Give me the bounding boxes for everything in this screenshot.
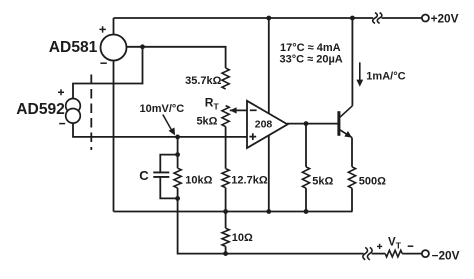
label VT minus mark [408,245,414,247]
wire capacitor bottom branch [160,178,177,199]
op-amp non-inverting input mark [249,133,256,140]
annotation 33C = 20uA [280,54,343,66]
dashed remote-sensor boundary line [90,75,92,151]
wire op-amp output to transistor base [287,123,338,125]
AD592 plus polarity mark [58,89,64,95]
annotation 10mV/degC with arrow [140,103,185,135]
potentiometer RT 5k (zigzag) [222,106,229,127]
value label 5k [312,176,333,188]
wire output node down to 5k resistor [305,124,307,167]
value label 10 ohm [232,232,253,244]
label VT [388,237,402,251]
svg-text:10Ω: 10Ω [232,232,253,244]
value label 12.7k [231,175,268,187]
junction dot node A (AD581 output) [140,44,145,49]
wire 12.7k bottom to bottom rail [225,188,227,212]
label +20V [431,11,459,25]
junction dot 12.7k / 10 ohm at bottom rail [223,209,228,214]
svg-text:5kΩ: 5kΩ [196,115,217,127]
op-amp U3 (triangle, 208) [247,101,288,148]
svg-text:12.7kΩ: 12.7kΩ [231,175,268,187]
label AD581 [49,39,98,56]
annotation current arrow 1mA/degC [356,62,363,86]
op-amp inverting input mark [250,109,257,111]
label 208 [255,118,273,130]
wire 5k bottom to bottom rail [305,188,307,211]
wire crossing column from top rail to bottom rail [268,18,270,212]
break mark on top rail [373,13,382,24]
wire 10k bottom down to lowest rail [177,188,179,198]
junction dot crossing column at top rail [266,16,271,21]
label VT plus mark [377,244,382,249]
svg-text:35.7kΩ: 35.7kΩ [185,75,222,87]
junction dot 5k bottom at bottom rail [304,209,309,214]
value label 10k [185,175,212,187]
wire +20V top rail (right segment after break) [382,17,422,19]
capacitor C (plates) [153,172,169,177]
junction dot node B (10mV/degC node) [175,135,180,140]
wire bottom rail (AD581 return) [114,211,353,213]
wire node A down-left to AD592 plus terminal [73,47,143,99]
wire RT wiper to op-amp inverting input [230,109,248,111]
wire transistor emitter to 500 ohm [351,138,353,167]
value label 500 ohm [359,176,386,188]
current source U2 AD592 (two-circle symbol) [66,99,81,124]
break mark on lowest rail [363,247,372,259]
resistor R1 35.7k [222,68,229,89]
AD581 plus polarity mark [99,26,105,32]
svg-text:10mV/°C: 10mV/°C [140,103,185,115]
transistor Q1 collector stroke [340,106,353,118]
transistor Q1 emitter stroke with arrow [340,130,352,138]
wire lowest rail right segment after break [372,253,386,255]
wire +20V top rail (left segment) [114,17,374,19]
junction dot crossing column at bottom rail [266,209,271,214]
wire AD581 output to node A [127,47,226,68]
terminal -20V (open circle) [422,250,429,257]
svg-text:V: V [388,237,396,249]
wire node C down crossing bottom rail to lowest rail [178,198,364,253]
svg-text:500Ω: 500Ω [359,176,386,188]
wire capacitor top branch [160,155,177,172]
potentiometer RT wiper arrow [230,107,237,113]
wire RT bottom to 12.7k resistor [225,127,227,169]
AD581 minus polarity mark [100,62,106,64]
resistor R6 500 ohm [348,167,355,188]
sense resistor VT (horizontal zigzag) [385,250,402,257]
svg-text:33°C ≈ 20µA: 33°C ≈ 20µA [280,54,343,66]
junction dot 10 ohm bottom at lowest rail [223,251,228,256]
label RT [205,95,220,111]
wire 10 ohm leads [225,212,227,254]
transistor Q1 base bar [337,111,340,136]
junction dot op-amp output node [304,121,309,126]
wire AD581 minus lead down to bottom rail [113,61,115,212]
wire VT resistor to -20V terminal [402,253,422,255]
resistor R4 10 ohm [222,228,229,246]
wire AD592 minus terminal to node B rail [73,123,248,137]
resistor R3 12.7k [222,169,229,188]
wire AD581 positive lead to top rail [113,18,115,35]
label -20V [432,249,460,263]
terminal +20V (open circle) [422,15,429,22]
svg-text:T: T [214,101,220,111]
svg-text:10kΩ: 10kΩ [185,175,212,187]
resistor R2 10k [174,168,181,188]
svg-text:1mA/°C: 1mA/°C [366,70,405,82]
value label 5k (RT) [196,115,217,127]
AD592 minus polarity mark [59,123,65,125]
svg-text:T: T [396,241,402,251]
value label 35.7k [185,75,222,87]
label AD592 [16,101,65,118]
voltage reference U1 AD581 (circle symbol) [101,35,127,61]
svg-text:+20V: +20V [431,11,459,25]
svg-text:5kΩ: 5kΩ [312,176,333,188]
wire node B down to 10k resistor [177,137,179,168]
wire transistor collector to top rail [351,18,353,106]
annotation 17C = 4mA [280,42,341,54]
svg-text:17°C ≈ 4mA: 17°C ≈ 4mA [280,42,341,54]
svg-text:C: C [139,168,149,183]
svg-text:−20V: −20V [432,249,460,263]
junction dot 10k bottom / capacitor bottom [175,196,180,201]
junction dot 10k top / capacitor top [175,152,180,157]
resistor R5 5k [302,167,309,188]
svg-text:208: 208 [255,118,273,130]
svg-text:AD581: AD581 [49,39,98,56]
label C [139,168,149,183]
annotation label 1mA/degC [366,70,405,82]
svg-text:R: R [205,95,214,109]
svg-text:AD592: AD592 [16,101,65,118]
junction dot transistor collector at top rail [350,16,355,21]
wire 500 ohm bottom to bottom rail [351,188,353,211]
